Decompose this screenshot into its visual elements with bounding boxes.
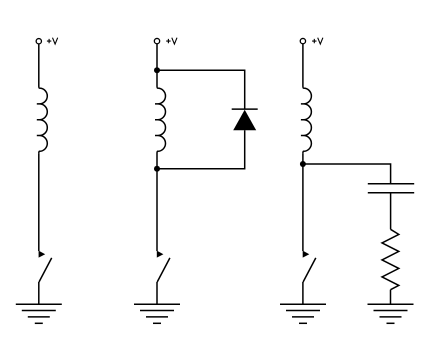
switch SW2 contact arrow — [157, 251, 164, 258]
switch SW1 contact arrow — [39, 251, 46, 258]
switch SW3 blade — [303, 258, 316, 282]
inductor L1 — [37, 86, 48, 153]
label +V (left) — [47, 38, 58, 44]
node A junction dot — [154, 67, 160, 73]
wire terminal to inductor L1 — [38, 44, 40, 86]
label +V (right) — [312, 38, 323, 44]
wire resistor R1 to ground — [390, 290, 392, 305]
wire switch SW1 to ground — [38, 282, 40, 304]
wire switch SW2 to ground — [156, 282, 158, 304]
wire node C to switch SW3 — [302, 164, 304, 251]
diode D1 triangle — [233, 110, 256, 131]
wire capacitor C1 to resistor R1 — [390, 193, 392, 230]
wire terminal to inductor L3 — [302, 44, 304, 86]
node B junction dot — [154, 166, 160, 172]
power terminal +V (middle) — [154, 38, 159, 43]
ground (left) — [16, 304, 62, 323]
inductor L2 — [155, 70, 166, 169]
power terminal +V (right) — [300, 38, 305, 43]
capacitor C1 top plate — [368, 183, 414, 185]
wire inductor L1 to switch SW1 — [38, 153, 40, 251]
capacitor C1 bottom plate — [368, 192, 414, 194]
label +V (middle) — [166, 38, 177, 44]
diode D1 cathode bar — [232, 108, 258, 110]
wire terminal to node A — [156, 44, 158, 71]
inductor L3 — [301, 86, 312, 153]
node C junction dot — [300, 161, 306, 167]
wire inductor L3 to node C — [302, 153, 304, 164]
ground (middle) — [134, 304, 180, 323]
wire top rail node A to diode D1 — [157, 70, 245, 109]
switch SW1 blade — [39, 258, 52, 282]
wire rail node C to capacitor C1 — [303, 164, 391, 184]
ground (under resistor R1) — [368, 304, 414, 323]
switch SW3 contact arrow — [303, 251, 310, 258]
wire switch SW3 to ground — [302, 282, 304, 304]
wire node B to switch SW2 — [156, 169, 158, 251]
power terminal +V (left) — [36, 39, 41, 44]
switch SW2 blade — [157, 258, 170, 282]
resistor R1 — [382, 229, 399, 289]
ground (right) — [280, 304, 326, 323]
wire diode D1 to node B — [157, 130, 245, 169]
